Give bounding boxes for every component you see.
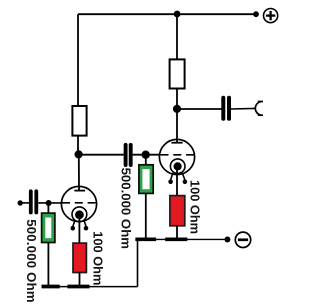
wire cathode2 to R5 [176, 167, 178, 196]
cathode dot [75, 210, 84, 219]
wire R1 to plate node A [77, 136, 79, 156]
wire ground drop stage2 to stage1 [137, 239, 139, 286]
capacitor C1 input [31, 191, 37, 212]
plate bar [171, 142, 182, 144]
heater pin left [171, 173, 173, 180]
wire node G down to R3 [47, 203, 49, 213]
node B grid2 junction [142, 151, 150, 159]
wire C2 to node B [133, 154, 160, 156]
heater pin right [182, 173, 185, 180]
resistor R1 plate load 1 (white) [72, 106, 86, 136]
envelope [159, 139, 194, 174]
ground bar under R3 [42, 285, 60, 289]
wire R4 to ground [145, 193, 147, 238]
envelope [61, 186, 96, 221]
node G grid1 junction [46, 200, 52, 206]
wire node A to C2 [79, 154, 124, 156]
svg-text:500.000 Ohm: 500.000 Ohm [24, 219, 39, 303]
capacitor C2 coupling [126, 145, 131, 165]
ground bar under R6 [67, 285, 89, 289]
node E dot before B+ [253, 11, 259, 17]
ground bar under R4 [135, 237, 156, 241]
resistor R2 plate load 2 (white) [170, 59, 185, 88]
cathode ring [72, 207, 87, 222]
plate lead [176, 140, 178, 143]
node C plate2 junction [173, 105, 181, 113]
wire node C to C3 [177, 108, 222, 110]
node D top rail junction [174, 11, 181, 18]
wire plate2 up to node C [176, 110, 178, 140]
grid (dashed) [161, 154, 196, 156]
wire input to C1 [20, 202, 29, 204]
ground bus stage1 [42, 286, 138, 288]
wire R2 to top rail [176, 14, 178, 59]
triode V1 [61, 186, 96, 230]
plate lead [78, 187, 80, 191]
svg-text:500.000 Ohm: 500.000 Ohm [119, 168, 134, 249]
wire left rail down to R1 [77, 14, 79, 107]
wire R3 to ground [47, 243, 49, 287]
resistor R4 grid 500.000 Ohm (green) [139, 165, 153, 194]
capacitor C3 output [223, 98, 229, 119]
triode V2 [159, 139, 195, 184]
resistor R6 cathode 100 Ohm stage1 (red) [73, 243, 86, 272]
wire node B down to R4 [145, 155, 147, 165]
input terminal dot [18, 200, 23, 205]
wire plate1 up to node A [78, 155, 80, 187]
node A plate1 junction [75, 150, 83, 158]
svg-text:100 Ohm: 100 Ohm [188, 180, 203, 234]
svg-text:100 Ohm: 100 Ohm [91, 231, 106, 285]
wire C3 to output jack [231, 107, 256, 110]
ground bar under R5 [165, 237, 187, 241]
grid (dashed) [62, 202, 97, 204]
wire R5 to ground [176, 226, 178, 239]
wire B+ top rail [78, 13, 256, 15]
output terminal (open jack) [255, 102, 263, 116]
wire C1 to node G [38, 202, 62, 204]
wire R6 to ground [79, 273, 81, 287]
resistor R3 grid 500.000 Ohm (green) [42, 213, 55, 242]
terminal B+ [264, 9, 278, 23]
heater pin right [84, 220, 86, 226]
resistor R5 cathode 100 Ohm stage2 (red) [170, 196, 185, 226]
terminal B- [235, 232, 250, 247]
heater pin left [73, 220, 75, 226]
ground bus stage2 [135, 238, 225, 240]
cathode ring [170, 159, 185, 174]
wire cathode1 to R6 [78, 215, 80, 243]
wire node C up to R2 [176, 89, 178, 109]
plate bar [74, 190, 85, 192]
node F dot before B- [224, 237, 230, 243]
cathode dot [174, 162, 182, 170]
